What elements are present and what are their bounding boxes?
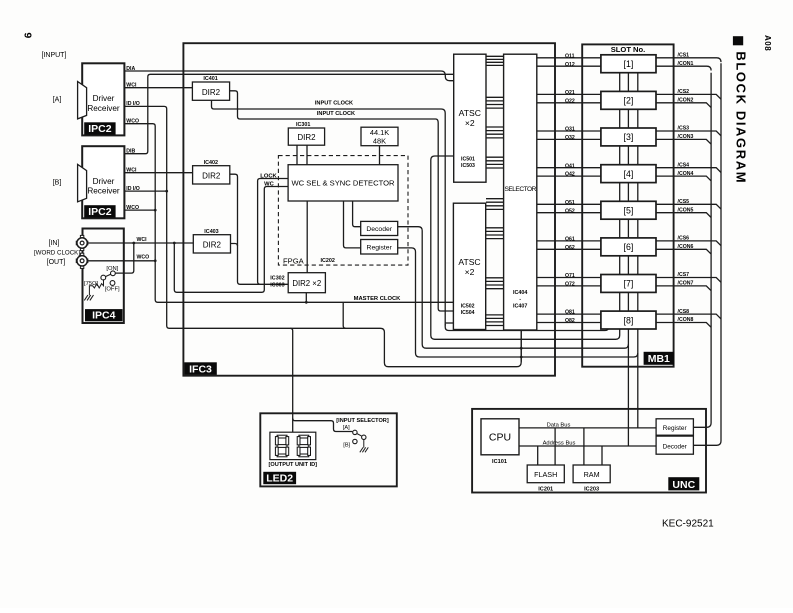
svg-text:IC302: IC302 — [270, 276, 284, 282]
wire /CON7 — [656, 286, 711, 291]
wire /CS7 — [656, 278, 721, 283]
svg-text:DIR2 ×2: DIR2 ×2 — [292, 279, 321, 288]
wire WCO-B branch — [124, 209, 155, 211]
svg-text:MASTER CLOCK: MASTER CLOCK — [354, 296, 402, 302]
svg-text:O62: O62 — [565, 245, 575, 251]
bus group 5 ATSC to SELECTOR — [486, 198, 504, 200]
svg-text:Receiver: Receiver — [87, 104, 120, 113]
FLASH pins — [537, 446, 539, 465]
FLASH IC201 — [527, 465, 564, 483]
ground LED2 — [363, 440, 365, 448]
IPC4 word clock block — [83, 229, 124, 324]
svg-text:IFC3: IFC3 — [189, 363, 212, 375]
svg-text:[3]: [3] — [624, 132, 634, 142]
wire IC401 bottom output INPUT CLOCK A line down to ATSC2 — [212, 100, 446, 325]
wire O52 — [537, 212, 601, 214]
wire IC403 output down to DIR2x2 — [229, 244, 237, 247]
svg-text:O72: O72 — [565, 282, 575, 288]
FPGA dashed boundary IC202 — [278, 156, 408, 266]
wire /CS8 — [656, 314, 721, 319]
svg-text:O32: O32 — [565, 135, 575, 141]
wire Decoder output to L4 and bus v2 — [398, 227, 628, 349]
wire ID I/O B branch — [124, 190, 166, 192]
wire O82 — [537, 322, 601, 324]
svg-text:/CS3: /CS3 — [678, 126, 690, 132]
svg-text:Decoder: Decoder — [366, 226, 392, 233]
DIR2 IC301 — [288, 128, 324, 145]
bus group 1 ATSC to SELECTOR — [486, 55, 504, 57]
svg-text:IC203: IC203 — [584, 487, 599, 493]
svg-text:DIR2: DIR2 — [203, 241, 222, 250]
svg-text:O52: O52 — [565, 208, 575, 214]
svg-text:O41: O41 — [565, 163, 575, 169]
wire WC SEL bottom to DIR2x2 top — [306, 201, 308, 273]
wire O51 — [537, 203, 601, 205]
title block square — [733, 36, 743, 45]
tag MB1 — [644, 352, 674, 365]
svg-text:Receiver: Receiver — [87, 187, 120, 196]
svg-text:WC: WC — [264, 181, 274, 187]
bus group 3 ATSC to SELECTOR — [486, 126, 504, 128]
bus group 6 ATSC to SELECTOR — [486, 227, 504, 229]
connector trapezoid [B] — [78, 164, 87, 201]
DIR2 IC402 — [193, 166, 230, 184]
svg-text:O12: O12 — [565, 62, 575, 68]
CPU IC101 — [481, 419, 519, 455]
svg-text:[2]: [2] — [624, 96, 634, 106]
data bus line — [519, 427, 656, 429]
svg-text:IC503: IC503 — [461, 163, 475, 169]
wire O71 — [537, 277, 601, 279]
svg-text:DIR2: DIR2 — [202, 88, 221, 97]
svg-text:WCO: WCO — [137, 255, 150, 261]
slot [6] — [601, 238, 656, 256]
junction dots on selector feed line — [520, 347, 523, 350]
svg-text:Driver: Driver — [93, 94, 115, 103]
wire O31 — [537, 130, 601, 132]
svg-text:O11: O11 — [565, 53, 575, 59]
svg-text:BLOCK DIAGRAM: BLOCK DIAGRAM — [734, 51, 749, 184]
wire /CS2 — [656, 94, 721, 99]
svg-text:[OUTPUT UNIT ID]: [OUTPUT UNIT ID] — [269, 462, 318, 468]
svg-text:IPC2: IPC2 — [88, 206, 112, 218]
wire WCI IPC4 to DIR2 IC403 — [87, 242, 194, 244]
wire LED2 feed tap down from L1 — [290, 328, 293, 432]
ATSC x2 lower IC502 IC504 — [453, 203, 485, 329]
MB1 mother board box — [582, 44, 673, 366]
svg-text:WCO: WCO — [126, 205, 139, 211]
switch ON/OFF circles — [111, 271, 116, 276]
connector trapezoid [A] — [78, 82, 87, 119]
svg-text:O82: O82 — [565, 318, 575, 324]
svg-text:/CON1: /CON1 — [678, 61, 694, 67]
svg-text:Decoder: Decoder — [663, 443, 688, 450]
tag IPC2 [B] — [84, 205, 115, 217]
Register (FPGA) — [361, 240, 398, 255]
svg-text:WC SEL & SYNC DETECTOR: WC SEL & SYNC DETECTOR — [292, 179, 395, 188]
svg-text:[WORD CLOCK]: [WORD CLOCK] — [34, 249, 80, 256]
ground IPC4 — [84, 295, 88, 300]
tag UNC — [668, 477, 699, 490]
DIR2 x2 IC302 IC303 — [288, 273, 325, 293]
wire IC301 pins to WC SEL — [296, 145, 298, 165]
wire /CON4 — [656, 176, 711, 181]
svg-text:IPC4: IPC4 — [92, 310, 116, 322]
svg-text:[B]: [B] — [53, 180, 62, 187]
wire LED2 switch branch — [293, 418, 353, 431]
wire WCO bus (all WCO pins) down to MASTER CLOCK line into ATSC2 — [124, 124, 453, 303]
wire /CS6 — [656, 241, 721, 246]
svg-text:/CON6: /CON6 — [678, 244, 694, 250]
BNC connector OUT — [80, 253, 83, 256]
wire 44.1K pin to WC SEL — [379, 146, 381, 165]
RAM pins — [583, 428, 585, 465]
wire O12 — [537, 65, 601, 67]
IFC3 main board box — [183, 43, 555, 376]
WC SEL & SYNC DETECTOR — [288, 165, 398, 201]
wire IC401 right output to INPUT CLOCK B line, down to ATSC1 stub and L3 — [230, 91, 454, 311]
svg-text:Register: Register — [663, 425, 688, 432]
svg-text:IC501: IC501 — [461, 157, 475, 163]
DIR2 IC401 — [192, 82, 229, 100]
svg-text:ATSC: ATSC — [459, 108, 481, 118]
svg-text:IC403: IC403 — [204, 229, 218, 235]
svg-text:[OUT]: [OUT] — [47, 259, 66, 266]
wire /CON6 — [656, 249, 711, 254]
svg-text:[IN]: [IN] — [49, 240, 60, 247]
UNC controller box — [472, 409, 706, 493]
wire /CON3 — [656, 139, 711, 144]
svg-text:RAM: RAM — [584, 470, 600, 479]
tag IPC4 — [85, 309, 123, 321]
svg-text:A08: A08 — [763, 35, 772, 51]
svg-text:[ON]: [ON] — [106, 266, 118, 272]
ATSC x2 upper IC501 IC503 — [454, 54, 486, 182]
wire WCI-A to DIR2 IC401 — [124, 87, 192, 89]
svg-text:O51: O51 — [565, 200, 575, 206]
svg-text:6: 6 — [23, 32, 35, 38]
wire WC tap from WCI down to FPGA WC input — [174, 187, 288, 293]
slot [7] — [601, 275, 656, 293]
svg-text:FLASH: FLASH — [534, 470, 557, 479]
svg-text:/CON2: /CON2 — [678, 98, 694, 104]
7-segment display frame — [270, 432, 316, 459]
svg-text:/CON3: /CON3 — [678, 134, 694, 140]
svg-text:DIB: DIB — [126, 149, 135, 155]
wire /CS3 — [656, 131, 721, 136]
svg-text:[5]: [5] — [624, 206, 634, 216]
wire O22 — [537, 102, 601, 104]
svg-text:/CS2: /CS2 — [678, 89, 690, 95]
svg-text:Address Bus: Address Bus — [543, 440, 576, 446]
wire O61 — [537, 240, 601, 242]
svg-text:O42: O42 — [565, 172, 575, 178]
svg-text:WCI: WCI — [126, 83, 137, 89]
svg-text:/CON5: /CON5 — [678, 207, 694, 213]
svg-text:IC101: IC101 — [492, 459, 507, 465]
LED2 display board box — [260, 413, 397, 486]
wire /CON2 — [656, 103, 711, 108]
junction WCI switch branch — [132, 242, 135, 245]
bus vertical v2 slots to UNC address bus — [627, 60, 629, 446]
svg-text:WCI: WCI — [126, 168, 137, 174]
svg-text:IC504: IC504 — [461, 310, 475, 316]
bus group 4 ATSC to SELECTOR — [486, 156, 504, 158]
wire /CON5 — [656, 213, 711, 218]
BNC connector IN — [80, 235, 83, 238]
wire WCI-B to DIR2 IC402 — [124, 172, 192, 174]
wire LOCK from WC SEL to DIR2x2 — [258, 179, 289, 285]
slot [5] — [601, 201, 656, 219]
switch lever — [105, 274, 110, 276]
svg-text:O22: O22 — [565, 98, 575, 104]
svg-text:O31: O31 — [565, 127, 575, 133]
wire ID I/O bus from IPC2-A and IPC2-B down to line L1 — [124, 106, 521, 366]
svg-text:IC202: IC202 — [321, 258, 335, 264]
wire /CS1 — [656, 58, 721, 62]
svg-text:/CS5: /CS5 — [678, 199, 690, 205]
wire selector control feed — [520, 330, 522, 362]
svg-text:[A]: [A] — [53, 97, 62, 104]
wire DIA from IPC2-A to ATSC1 — [124, 71, 453, 81]
svg-text:SELECTOR: SELECTOR — [504, 186, 536, 193]
svg-text:DIR2: DIR2 — [297, 133, 316, 142]
svg-text:[B]: [B] — [343, 443, 350, 449]
svg-text:IC402: IC402 — [204, 160, 218, 166]
tag LED2 — [263, 472, 296, 484]
7-seg digit 1 — [277, 435, 287, 438]
svg-text:IC401: IC401 — [203, 76, 217, 82]
svg-text:INPUT CLOCK: INPUT CLOCK — [315, 101, 353, 107]
wire stub into ATSC2 clock input — [445, 322, 453, 324]
wire WC SEL to Decoder — [353, 201, 361, 227]
bus group 8 ATSC to SELECTOR — [486, 314, 504, 316]
svg-text:/CS1: /CS1 — [678, 53, 690, 59]
svg-text:/CS6: /CS6 — [678, 236, 690, 242]
wire Register output to L5 and bus v3 — [398, 248, 638, 357]
svg-text:/CS7: /CS7 — [678, 272, 690, 278]
svg-text:SLOT No.: SLOT No. — [611, 45, 646, 54]
svg-text:MB1: MB1 — [648, 353, 670, 365]
wire WCO IPC4 branch — [87, 260, 155, 262]
svg-text:[4]: [4] — [624, 169, 634, 179]
svg-text:ID I/O: ID I/O — [126, 186, 140, 192]
svg-text:IC407: IC407 — [513, 304, 527, 310]
wire L2 from input clock A line under slot 8 — [445, 324, 608, 331]
wire /CON8 — [656, 323, 711, 328]
svg-text:IC303: IC303 — [270, 283, 284, 289]
svg-text:/CS4: /CS4 — [678, 162, 690, 168]
svg-text:WCI: WCI — [137, 237, 148, 243]
/CON bus vertical to UNC Register — [693, 73, 711, 428]
driver/receiver IPC2 [B] — [82, 146, 124, 218]
svg-text:×2: ×2 — [465, 267, 475, 277]
svg-text:IPC2: IPC2 — [88, 123, 112, 135]
/CS bus vertical to UNC Decoder — [693, 63, 721, 445]
svg-text:Data Bus: Data Bus — [547, 422, 571, 428]
svg-text:[8]: [8] — [624, 315, 634, 325]
svg-text:/CS8: /CS8 — [678, 309, 690, 315]
wire /CON1 — [656, 66, 711, 70]
svg-text:IC301: IC301 — [296, 122, 310, 128]
wire O81 — [537, 313, 601, 315]
wire DIR2x2 bottom pin to master clock — [305, 293, 307, 303]
wire WC SEL to Register — [344, 201, 361, 248]
svg-text:KEC-92521: KEC-92521 — [662, 519, 714, 530]
bus group 7 ATSC to SELECTOR — [486, 277, 504, 279]
junction DIR2x2 output on master clock — [305, 301, 308, 304]
svg-text:IC502: IC502 — [461, 304, 475, 310]
svg-text:[INPUT]: [INPUT] — [42, 52, 67, 59]
svg-text:[INPUT SELECTOR]: [INPUT SELECTOR] — [336, 418, 389, 424]
svg-text:[7]: [7] — [624, 279, 634, 289]
wire IC402 output down to DIR2x2 — [230, 174, 289, 284]
wire /CS5 — [656, 204, 721, 209]
bus vertical v1 under slots — [619, 60, 621, 330]
wire DIB from IPC2-B up and over to ATSC2 — [124, 74, 453, 153]
svg-text:/CON8: /CON8 — [678, 317, 694, 323]
bus group 2 ATSC to SELECTOR — [486, 96, 504, 98]
slot [3] — [601, 128, 656, 146]
7-seg digit 2 — [299, 435, 309, 438]
wire O41 — [537, 167, 601, 169]
svg-text:O71: O71 — [565, 273, 575, 279]
slot [8] — [601, 311, 656, 329]
svg-text:[6]: [6] — [624, 242, 634, 252]
tag IFC3 — [184, 362, 217, 375]
svg-text:×2: ×2 — [465, 118, 475, 128]
svg-text:Register: Register — [367, 245, 393, 252]
svg-text:ID I/O: ID I/O — [126, 101, 140, 107]
bus vertical v3 slots to UNC data bus — [637, 60, 639, 428]
Decoder (UNC) — [656, 436, 693, 454]
SELECTOR IC404-IC407 — [504, 54, 537, 330]
tag IPC2 [A] — [84, 122, 115, 134]
oscillator 44.1K 48K — [361, 127, 398, 146]
svg-text:O61: O61 — [565, 237, 575, 243]
svg-text:[OFF]: [OFF] — [105, 287, 120, 293]
svg-text:WCO: WCO — [126, 119, 139, 125]
wire WCI branch down to ON switch — [115, 243, 134, 273]
wire O72 — [537, 285, 601, 287]
slot [2] — [601, 91, 656, 109]
wire /CS4 — [656, 168, 721, 173]
slot [1] — [601, 55, 656, 73]
svg-text:Driver: Driver — [93, 177, 115, 186]
svg-text:/CON4: /CON4 — [678, 171, 694, 177]
resistor 75 ohm — [89, 279, 103, 295]
svg-text:48K: 48K — [373, 137, 386, 146]
wire O21 — [537, 93, 601, 95]
driver/receiver IPC2 [A] — [82, 63, 124, 135]
Decoder (FPGA) — [361, 221, 398, 235]
Register (UNC) — [656, 419, 693, 435]
svg-text:O81: O81 — [565, 310, 575, 316]
wire O62 — [537, 248, 601, 250]
svg-text:[1]: [1] — [624, 59, 634, 69]
svg-text:O21: O21 — [565, 90, 575, 96]
wire O42 — [537, 175, 601, 177]
svg-text:INPUT CLOCK: INPUT CLOCK — [317, 111, 355, 117]
svg-text:DIA: DIA — [126, 66, 135, 72]
input selector switch — [353, 430, 357, 434]
DIR2 IC403 — [193, 235, 230, 253]
svg-text:IC201: IC201 — [538, 487, 553, 493]
svg-text:FPGA: FPGA — [283, 256, 305, 265]
svg-text:LED2: LED2 — [266, 473, 293, 485]
wire master clock branch down to L1 — [343, 302, 346, 328]
wire O11 — [537, 57, 601, 59]
svg-text:-: - — [519, 296, 521, 302]
svg-text:[A]: [A] — [343, 425, 350, 431]
svg-text:IC404: IC404 — [513, 290, 527, 296]
wire ATSC1 output down to L3 and slot bus v1 — [431, 156, 620, 339]
svg-text:LOCK: LOCK — [260, 173, 277, 179]
address bus line — [519, 445, 656, 447]
svg-text:UNC: UNC — [672, 479, 695, 491]
svg-text:/CON7: /CON7 — [678, 281, 694, 287]
svg-text:CPU: CPU — [489, 432, 511, 444]
RAM IC203 — [573, 465, 610, 483]
wire O32 — [537, 138, 601, 140]
svg-text:ATSC: ATSC — [458, 257, 480, 267]
slot [4] — [601, 165, 656, 183]
svg-text:DIR2: DIR2 — [202, 172, 221, 181]
